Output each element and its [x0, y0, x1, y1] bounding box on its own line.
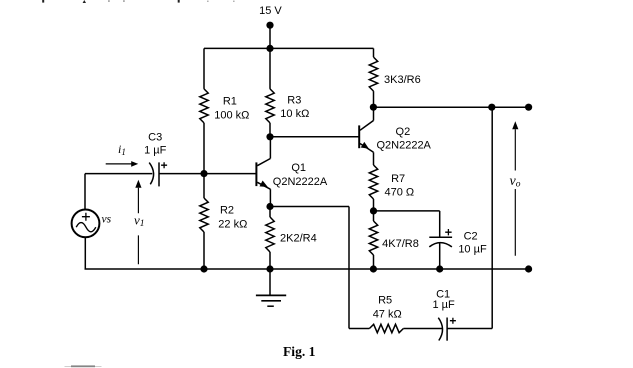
svg-text:C3: C3 — [148, 132, 162, 144]
svg-text:470 Ω: 470 Ω — [384, 187, 414, 199]
svg-text:Q2N2222A: Q2N2222A — [273, 176, 328, 188]
svg-text:R3: R3 — [287, 94, 301, 106]
svg-text:10 µF: 10 µF — [458, 243, 487, 255]
svg-text:C2: C2 — [464, 230, 478, 242]
svg-text:Q2: Q2 — [396, 126, 411, 138]
svg-text:100 kΩ: 100 kΩ — [214, 109, 249, 121]
svg-text:R2: R2 — [220, 204, 234, 216]
svg-text:Fig. 1: Fig. 1 — [283, 344, 316, 359]
svg-text:vs: vs — [102, 214, 112, 226]
svg-text:2K2/R4: 2K2/R4 — [280, 232, 317, 244]
svg-text:Q1: Q1 — [291, 162, 306, 174]
svg-text:1 µF: 1 µF — [144, 144, 167, 156]
svg-text:Q2N2222A: Q2N2222A — [376, 140, 431, 152]
svg-text:4K7/R8: 4K7/R8 — [382, 238, 419, 250]
svg-text:47 kΩ: 47 kΩ — [373, 308, 402, 320]
svg-text:R5: R5 — [378, 295, 392, 307]
svg-text:R1: R1 — [223, 95, 237, 107]
svg-text:15 V: 15 V — [259, 5, 282, 17]
svg-text:10 kΩ: 10 kΩ — [280, 108, 309, 120]
svg-text:22 kΩ: 22 kΩ — [218, 219, 247, 231]
svg-text:1 µF: 1 µF — [432, 299, 455, 311]
svg-text:3K3/R6: 3K3/R6 — [384, 74, 421, 86]
svg-text:R7: R7 — [391, 173, 405, 185]
